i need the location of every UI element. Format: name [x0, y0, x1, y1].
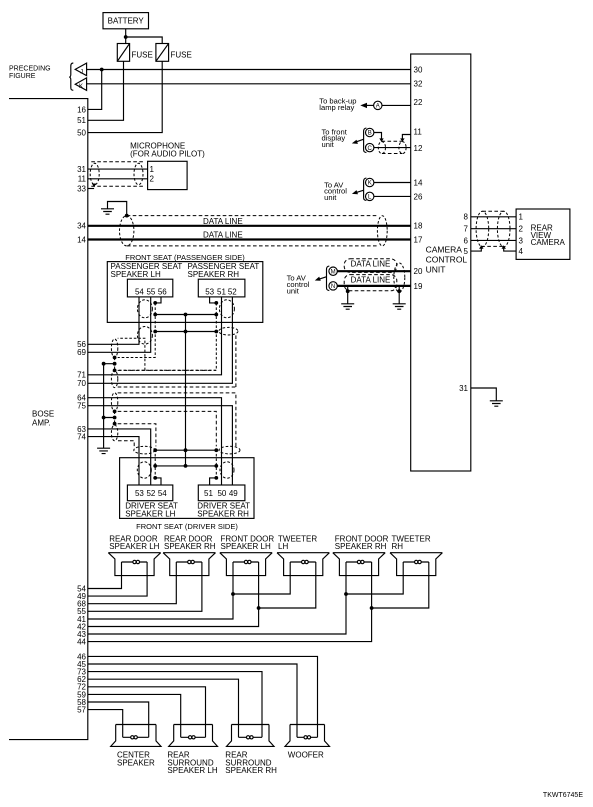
wire pin 72 to rear surround LH minus — [88, 687, 206, 738]
svg-text:26: 26 — [414, 192, 423, 201]
to AV control unit label (K L) — [324, 180, 347, 202]
wire preceding figure to pin 32 — [87, 83, 411, 85]
svg-text:69: 69 — [77, 348, 86, 357]
svg-text:8: 8 — [464, 213, 469, 222]
svg-text:18: 18 — [414, 222, 423, 231]
center shield wire passenger to driver — [185, 315, 187, 466]
svg-text:SPEAKER RH: SPEAKER RH — [164, 542, 216, 551]
microphone label — [130, 142, 205, 159]
wire pin 31 to microphone pin 1 — [88, 168, 148, 170]
svg-text:52: 52 — [146, 489, 155, 498]
speaker tweeter RH — [390, 553, 442, 576]
svg-text:C: C — [368, 146, 373, 152]
svg-text:30: 30 — [414, 65, 423, 74]
shield envelope microphone pair — [91, 162, 143, 187]
svg-text:FUSE: FUSE — [171, 51, 192, 60]
junction data shield — [125, 214, 129, 218]
svg-text:52: 52 — [228, 287, 237, 296]
wire pin 6 to camera pin 3 — [471, 239, 516, 241]
junction front door LH minus — [257, 606, 261, 610]
junctions driver connector lower — [153, 464, 218, 468]
ground G1 (data line shield) — [101, 209, 114, 214]
svg-text:50: 50 — [217, 489, 226, 498]
wire pin 50 to fuse F2 — [88, 61, 162, 132]
svg-text:PRECEDING: PRECEDING — [9, 66, 51, 73]
driver seat speaker LH label — [125, 502, 178, 519]
wire pin 44 to front door RH minus — [88, 562, 372, 642]
svg-text:14: 14 — [414, 178, 423, 187]
ground G3 — [393, 304, 406, 309]
data line wire pin 14 to pin 17 — [88, 238, 411, 240]
wire pin 55 to rear door RH minus — [88, 562, 202, 611]
shield chain ellipse pair 64 75 — [111, 393, 117, 412]
svg-text:DATA LINE: DATA LINE — [203, 231, 243, 240]
connector circle N — [329, 282, 337, 290]
svg-text:TKWT6745E: TKWT6745E — [543, 792, 583, 799]
shield ellipse M N right — [394, 263, 405, 292]
junction hook driver LH — [153, 476, 157, 480]
svg-text:6: 6 — [464, 236, 469, 245]
shield drain stub left (pin 19 pair) — [347, 286, 349, 291]
shield ellipse C left — [378, 142, 385, 154]
wire pin 70 to passenger RH 52 — [88, 297, 233, 383]
svg-text:SPEAKER RH: SPEAKER RH — [197, 510, 249, 519]
connector circle B — [366, 128, 374, 136]
speaker front door LH — [220, 553, 272, 576]
svg-text:CONTROL: CONTROL — [426, 255, 468, 265]
svg-text:unit: unit — [324, 193, 337, 202]
shield ellipse passenger LH lower — [137, 327, 152, 345]
wire pin 57 to center speaker plus — [88, 710, 123, 738]
wire pin 63 to driver LH 52 — [88, 429, 151, 485]
arrow to back-up lamp relay — [360, 103, 373, 108]
junction front door RH plus — [344, 592, 348, 596]
battery B1 — [103, 13, 149, 29]
wire pin 64 to driver RH 50 — [88, 398, 222, 485]
svg-text:56: 56 — [158, 287, 167, 296]
svg-text:B: B — [368, 131, 372, 137]
driver RH connector box pins 51 50 49 — [198, 485, 245, 501]
svg-text:SPEAKER RH: SPEAKER RH — [335, 542, 387, 551]
shield ellipse microphone right — [134, 163, 143, 184]
wire preceding figure to pin 30 — [87, 69, 411, 71]
shield ellipse driver LH lower — [137, 462, 151, 478]
svg-text:12: 12 — [414, 144, 423, 153]
shield chain links — [114, 358, 116, 426]
camera control unit box — [411, 54, 471, 471]
wire pin 31 to ground — [471, 388, 497, 401]
svg-text:unit: unit — [287, 286, 300, 295]
junctions shield chain — [113, 356, 117, 426]
ground wire drain left — [347, 291, 349, 304]
svg-text:74: 74 — [77, 433, 86, 442]
driver seat speaker RH label — [197, 502, 250, 519]
front door speaker RH label — [335, 534, 389, 551]
svg-text:J: J — [80, 69, 83, 75]
front seat driver side box — [120, 458, 254, 519]
shield envelope data lines — [127, 216, 378, 246]
svg-text:SPEAKER: SPEAKER — [117, 758, 155, 767]
shield hook passenger LH 56 — [155, 297, 161, 303]
BOSE AMP label — [32, 410, 54, 428]
junctions ground links — [102, 362, 106, 420]
svg-text:A: A — [376, 104, 380, 110]
shield connector line upper — [155, 314, 216, 316]
speaker rear surround RH — [227, 725, 275, 747]
wire pin 8 to camera pin 1 — [471, 216, 516, 218]
svg-text:DATA LINE: DATA LINE — [351, 276, 391, 285]
wire pin 59 to rear surround LH plus — [88, 694, 181, 737]
bracket M N — [327, 266, 330, 290]
ground G4 — [490, 401, 503, 406]
speaker center — [111, 725, 161, 747]
tweeter RH label — [392, 534, 431, 551]
ground G2 — [341, 304, 354, 309]
svg-text:2: 2 — [150, 175, 155, 184]
speaker rear surround LH — [169, 725, 218, 747]
shield ellipse camera right — [497, 211, 510, 247]
ground link wires — [104, 364, 115, 418]
wire pin 69 to passenger LH 55 — [88, 297, 151, 352]
svg-text:7: 7 — [464, 225, 469, 234]
svg-text:AMP.: AMP. — [32, 419, 51, 428]
shield connector line driver upper — [155, 449, 216, 451]
junction front door LH plus — [231, 592, 235, 596]
data line wire pin 34 to pin 18 — [88, 225, 411, 227]
connector circle L — [366, 192, 374, 200]
svg-text:WOOFER: WOOFER — [288, 751, 324, 760]
svg-text:32: 32 — [414, 80, 423, 89]
branch front door RH to tweeter RH minus — [372, 562, 429, 608]
shield stadium driver RH upper — [219, 446, 240, 454]
wire pin 74 to driver LH 53 — [88, 437, 139, 485]
shield drain stub right (pin 19 pair) — [398, 286, 400, 291]
wire circle B to shield — [374, 133, 382, 139]
wire shield to camera pin 4 — [504, 248, 516, 251]
shield ellipse data lines right — [377, 216, 387, 246]
wire pin 5 to shield — [471, 248, 482, 251]
shield triangle B — [379, 138, 383, 142]
ground wire drain right — [398, 291, 400, 304]
preceding figure label — [9, 66, 51, 81]
rear door speaker RH label — [164, 534, 216, 551]
rear surround speaker LH label — [167, 751, 217, 776]
svg-text:SPEAKER RH: SPEAKER RH — [188, 270, 240, 279]
junctions driver connector upper — [153, 448, 218, 452]
wire pin 73 to rear surround RH minus — [88, 672, 262, 738]
svg-text:K: K — [368, 181, 372, 187]
data line box 1 (M) — [344, 259, 397, 273]
svg-text:31: 31 — [459, 384, 468, 393]
svg-text:(FOR AUDIO PILOT): (FOR AUDIO PILOT) — [130, 150, 205, 159]
svg-text:UNIT: UNIT — [426, 265, 446, 275]
wire shield to pin 11 — [402, 135, 410, 139]
wire pin 56 to passenger LH 54 — [88, 297, 139, 344]
shield connector line driver lower — [155, 465, 216, 467]
svg-text:5: 5 — [464, 247, 469, 256]
brace preceding figure — [69, 63, 73, 90]
svg-text:DATA LINE: DATA LINE — [203, 217, 243, 226]
svg-text:75: 75 — [77, 402, 86, 411]
svg-text:55: 55 — [146, 287, 155, 296]
svg-text:22: 22 — [414, 98, 423, 107]
junction front door RH minus — [370, 606, 374, 610]
arrow to AV control unit (M N) — [315, 277, 327, 281]
wire pin 42 to front door LH minus — [88, 562, 259, 627]
svg-text:FIGURE: FIGURE — [9, 73, 36, 80]
svg-text:N: N — [331, 284, 335, 290]
junction hook LH — [153, 301, 157, 305]
svg-text:54: 54 — [135, 287, 144, 296]
svg-text:lamp relay: lamp relay — [319, 103, 354, 112]
wire ground to data shield — [108, 202, 127, 216]
svg-text:16: 16 — [77, 105, 86, 114]
arrow to front display unit — [352, 139, 364, 144]
shield hook passenger RH 53 — [210, 297, 217, 303]
ground G5 — [97, 448, 110, 453]
driver LH connector box pins 53 52 54 — [127, 485, 172, 501]
svg-text:51: 51 — [204, 489, 213, 498]
svg-text:53: 53 — [135, 489, 144, 498]
microphone connector box — [148, 161, 188, 189]
junction below battery — [124, 35, 128, 39]
shield envelope pair 63 74 — [118, 424, 156, 447]
svg-text:4: 4 — [519, 247, 524, 256]
arrow to AV control unit (K L) — [352, 190, 364, 194]
shield envelope camera top — [482, 210, 503, 212]
svg-text:50: 50 — [77, 129, 86, 138]
wire pin 62 to rear surround RH plus — [88, 679, 239, 737]
svg-text:SPEAKER LH: SPEAKER LH — [221, 542, 271, 551]
svg-text:FUSE: FUSE — [132, 51, 153, 60]
shield envelope pair 71 70 — [118, 335, 236, 387]
svg-text:20: 20 — [414, 267, 423, 276]
shield bottom line camera — [481, 245, 503, 247]
shield triangle at pin 33 — [92, 184, 96, 188]
connector arrow J (preceding figure) — [75, 63, 86, 76]
svg-text:34: 34 — [77, 222, 86, 231]
svg-text:LH: LH — [278, 542, 288, 551]
wire pin 54 to rear door LH plus — [88, 562, 122, 589]
svg-text:RH: RH — [392, 542, 404, 551]
front door speaker LH label — [221, 534, 275, 551]
junction drain left — [346, 289, 350, 293]
speaker front door RH — [333, 553, 385, 576]
speaker woofer — [285, 725, 330, 747]
wire pin 16 to junction — [88, 70, 102, 110]
shield chain ellipse pair 56 69 — [111, 339, 117, 358]
wire circle K to pin 14 — [374, 182, 411, 184]
svg-text:SPEAKER LH: SPEAKER LH — [167, 766, 217, 775]
wire circle A to pin 22 — [382, 104, 411, 106]
junction drain right — [397, 289, 401, 293]
tweeter LH label — [278, 534, 317, 551]
wire pin 49 to rear door LH minus — [88, 562, 147, 596]
shield chain ellipse pair 63 74 — [111, 425, 117, 441]
svg-text:SPEAKER LH: SPEAKER LH — [125, 510, 175, 519]
svg-text:51: 51 — [217, 287, 226, 296]
connector circle A — [374, 101, 382, 109]
shield stadium driver LH upper — [134, 446, 155, 454]
branch front door LH to tweeter LH plus — [233, 562, 290, 594]
svg-text:57: 57 — [77, 706, 86, 715]
svg-text:2: 2 — [519, 225, 524, 234]
speaker rear door RH — [163, 553, 215, 576]
shield hook driver RH 51 — [210, 478, 217, 485]
shield ground wire — [103, 364, 105, 449]
svg-text:31: 31 — [77, 165, 86, 174]
shield ellipse C right — [399, 142, 406, 154]
fuse F1 — [117, 44, 153, 62]
to back-up lamp relay label — [319, 96, 356, 111]
rear door speaker LH label — [109, 534, 159, 551]
shield ellipse passenger RH upper — [219, 300, 234, 318]
shield ellipse data lines left — [120, 216, 134, 246]
passenger seat speaker LH label — [111, 262, 183, 279]
svg-text:33: 33 — [77, 184, 86, 193]
wire pin 11 to microphone pin 2 — [88, 178, 148, 180]
svg-text:K: K — [79, 84, 83, 90]
svg-text:49: 49 — [229, 489, 238, 498]
BOSE amplifier box — [9, 99, 88, 740]
connector arrow K (preceding figure) — [75, 78, 86, 91]
to AV control unit label (M N) — [287, 274, 310, 296]
shield connector line lower — [155, 331, 216, 333]
wire pin 7 to camera pin 2 — [471, 228, 516, 230]
svg-text:53: 53 — [205, 287, 214, 296]
shield triangle at pin 11 — [400, 138, 404, 142]
shield top line B to 11 — [382, 140, 403, 142]
svg-text:M: M — [331, 269, 336, 275]
wire pin 45 to woofer plus — [88, 664, 297, 737]
data line box 2 (N) — [344, 275, 397, 291]
wire circle C to pin 12 — [374, 147, 411, 149]
shield ellipse driver RH lower — [220, 462, 234, 478]
svg-text:19: 19 — [414, 282, 423, 291]
shield ellipse passenger LH upper — [137, 300, 152, 318]
wire pin 43 to front door RH plus — [88, 562, 346, 634]
svg-text:SPEAKER RH: SPEAKER RH — [225, 766, 277, 775]
rear view camera box — [516, 209, 570, 259]
svg-text:51: 51 — [77, 116, 86, 125]
shield triangle pin 4 — [502, 245, 506, 249]
junction on wire 30 — [100, 68, 104, 72]
wire pin 46 to woofer minus — [88, 656, 318, 737]
junctions connector upper — [153, 313, 218, 317]
to front display unit label — [322, 127, 348, 149]
svg-text:70: 70 — [77, 379, 86, 388]
wire pin 51 to fuse F1 — [88, 61, 124, 120]
shield chain ellipse pair 71 70 — [111, 370, 117, 387]
wire pin 75 to driver RH 49 — [88, 406, 233, 485]
branch front door LH to tweeter LH minus — [259, 562, 316, 608]
svg-text:BOSE: BOSE — [32, 410, 54, 419]
passenger RH connector box pins 53 51 52 — [198, 279, 245, 297]
junctions connector lower — [153, 330, 218, 334]
shield ellipse microphone left — [90, 163, 99, 184]
shield stadium passenger RH lower — [219, 327, 238, 335]
connector circle M — [329, 267, 337, 275]
shield drain passenger LH — [118, 303, 156, 358]
svg-text:17: 17 — [414, 235, 423, 244]
shield drain driver LH — [154, 454, 156, 478]
wire pin 58 to center speaker minus — [88, 702, 149, 737]
svg-text:11: 11 — [414, 128, 423, 137]
wire pin 33 shield stub — [88, 188, 94, 190]
wire battery to fuses — [126, 29, 163, 44]
junction hook driver RH — [214, 476, 218, 480]
svg-text:44: 44 — [77, 638, 86, 647]
wire pin 41 to front door LH plus — [88, 562, 233, 619]
connector circle C — [366, 143, 374, 151]
passenger LH connector box pins 54 55 56 — [127, 279, 172, 297]
svg-text:CAMERA: CAMERA — [531, 238, 566, 247]
branch front door RH to tweeter RH plus — [346, 562, 403, 594]
bracket K L — [364, 178, 367, 200]
connector circle K — [366, 178, 374, 186]
svg-text:1: 1 — [519, 213, 524, 222]
wire pin 68 to rear door RH plus — [88, 562, 177, 604]
svg-text:54: 54 — [158, 489, 167, 498]
shield ellipse camera left — [476, 211, 489, 247]
shield hook driver LH 54 — [155, 478, 161, 485]
junction hook RH — [214, 301, 218, 305]
svg-text:DATA LINE: DATA LINE — [351, 259, 391, 268]
fuse F2 — [156, 44, 192, 62]
wire circle L to pin 26 — [374, 195, 411, 197]
svg-text:FRONT SEAT (PASSENGER SIDE): FRONT SEAT (PASSENGER SIDE) — [125, 253, 245, 262]
wire pin 71 to passenger RH 51 — [88, 297, 222, 375]
center speaker label — [117, 751, 155, 768]
shield triangle pin 5 — [479, 245, 483, 249]
svg-text:3: 3 — [519, 236, 524, 245]
shield drain passenger RH — [118, 303, 217, 370]
svg-text:CAMERA: CAMERA — [426, 245, 463, 255]
speaker tweeter LH — [277, 553, 329, 576]
bracket B C — [364, 128, 367, 152]
svg-text:BATTERY: BATTERY — [108, 17, 145, 26]
passenger seat speaker RH label — [188, 262, 260, 279]
rear surround speaker RH label — [225, 751, 277, 776]
svg-text:11: 11 — [78, 175, 87, 184]
speaker rear door LH — [108, 553, 160, 576]
wire circle N to pin 19 — [337, 285, 410, 287]
svg-text:14: 14 — [77, 235, 86, 244]
svg-text:SPEAKER LH: SPEAKER LH — [109, 542, 159, 551]
svg-text:unit: unit — [322, 140, 335, 149]
shield envelope pair 64 75 — [118, 393, 236, 447]
shield bottom line C — [382, 153, 403, 155]
shield drain driver RH — [215, 454, 217, 478]
svg-text:FRONT SEAT (DRIVER SIDE): FRONT SEAT (DRIVER SIDE) — [136, 522, 238, 531]
front seat passenger side box — [107, 262, 262, 323]
camera control unit label — [426, 245, 468, 275]
svg-text:1: 1 — [150, 165, 155, 174]
svg-text:SPEAKER LH: SPEAKER LH — [111, 270, 161, 279]
wire circle M to pin 20 — [337, 270, 410, 272]
